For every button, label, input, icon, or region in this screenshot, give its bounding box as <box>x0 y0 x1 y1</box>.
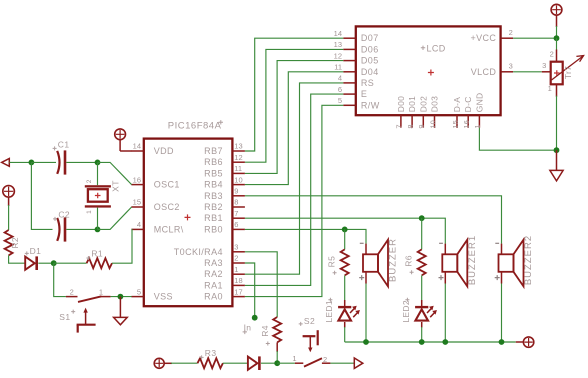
wire D2 to node C <box>261 362 277 364</box>
svg-text:11: 11 <box>234 164 242 173</box>
U1 origin cross <box>185 214 191 220</box>
svg-text:RB5: RB5 <box>204 168 223 178</box>
junction C2/XT node <box>95 227 101 233</box>
svg-text:16: 16 <box>133 175 141 184</box>
wire node B to R1 <box>54 262 87 264</box>
svg-text:D06: D06 <box>361 44 379 54</box>
svg-text:T0CKI/RA4: T0CKI/RA4 <box>174 247 223 257</box>
LCD pin 15 D-A stub <box>456 115 458 128</box>
XT origin cross <box>95 193 101 199</box>
svg-text:3: 3 <box>542 61 546 70</box>
LED2 label <box>405 298 409 302</box>
svg-text:S1: S1 <box>59 312 70 322</box>
svg-text:VSS: VSS <box>154 292 173 302</box>
svg-text:R6: R6 <box>404 255 414 266</box>
svg-text:13: 13 <box>234 142 242 151</box>
svg-text:RB1: RB1 <box>204 213 223 223</box>
svg-text:RA1: RA1 <box>204 280 223 290</box>
U1 pin 5 VSS stub <box>131 296 143 298</box>
svg-text:8: 8 <box>406 124 415 128</box>
svg-text:11: 11 <box>334 63 342 72</box>
svg-text:9: 9 <box>417 124 426 128</box>
wire arrow to node A <box>9 161 31 163</box>
svg-text:2: 2 <box>70 287 74 296</box>
svg-text:4: 4 <box>137 220 141 229</box>
svg-text:3: 3 <box>509 62 513 71</box>
U1 pin 2 RA3 stub <box>232 262 245 264</box>
U1 pin 8 RB2 stub <box>232 206 245 208</box>
resistor R4 <box>273 317 281 342</box>
U1 pin 11 RB5 stub <box>232 172 245 174</box>
node In end dot <box>252 315 258 321</box>
svg-text:BUZZER: BUZZER <box>388 238 399 282</box>
wire P5 down <box>556 15 558 27</box>
U1 pin 3 T0CKI/RA4 stub <box>232 251 245 253</box>
buzzer SP3 BUZZER2 <box>495 235 534 287</box>
switch S2 pin2 stub <box>322 362 331 364</box>
svg-text:RB4: RB4 <box>204 180 223 190</box>
svg-text:6: 6 <box>338 85 342 94</box>
wire node A to C1 <box>31 161 56 163</box>
output terminal arrow <box>354 358 363 368</box>
svg-text:RB6: RB6 <box>204 157 223 167</box>
wire LED2 to rail <box>421 322 423 328</box>
svg-text:MCLR\: MCLR\ <box>154 224 184 234</box>
svg-text:5: 5 <box>338 96 342 105</box>
svg-text:7: 7 <box>234 209 238 218</box>
svg-text:17: 17 <box>234 287 242 296</box>
U1 pin 18 RA1 stub <box>232 284 245 286</box>
diode D1 <box>25 256 38 270</box>
LCD pin 10 D03 stub <box>434 115 436 128</box>
svg-text:1: 1 <box>473 124 482 128</box>
wire S2 to arrow <box>330 362 354 364</box>
LCD value label <box>421 46 425 50</box>
wire RA4 to R4 <box>245 252 277 317</box>
U1 pin 12 RB6 stub <box>232 161 245 163</box>
trimmer Tr7 bottom stub <box>556 84 558 96</box>
svg-text:R3: R3 <box>205 348 217 358</box>
junction node A <box>29 160 35 166</box>
supply +V terminal P1 <box>115 129 126 140</box>
supply +V terminal P2 <box>3 186 15 198</box>
resistor R6 <box>418 249 426 275</box>
svg-text:9: 9 <box>234 187 238 196</box>
wire R5 to LED1 <box>344 275 346 300</box>
S2 actuator <box>303 330 318 352</box>
svg-text:D1: D1 <box>30 246 42 256</box>
wire RB6-D06 <box>245 49 343 162</box>
LED LED2 <box>415 306 437 321</box>
wire R6 to LED2 <box>421 275 423 300</box>
ground GND1 stub <box>119 297 121 318</box>
svg-text:1: 1 <box>99 287 103 296</box>
U1 pin 10 RB4 stub <box>232 184 245 186</box>
junction rail/BUZZER1 <box>442 339 448 345</box>
capacitor C1 <box>57 150 66 174</box>
wire RB7-D07 <box>245 38 343 151</box>
wire P3 to R3 <box>164 362 172 364</box>
wire R1 to MCLR <box>112 229 132 263</box>
U1 pin 15 OSC2 stub <box>131 206 143 208</box>
U1 pin 6 RB0 stub <box>232 228 245 230</box>
svg-text:GND: GND <box>474 93 484 113</box>
LCD pin 13 D06 stub <box>343 48 356 50</box>
wire BUZZER bottom <box>365 284 367 343</box>
svg-text:4: 4 <box>338 74 342 83</box>
wire node B down to S1 <box>54 263 66 296</box>
svg-text:16: 16 <box>462 120 471 128</box>
svg-text:Tr7: Tr7 <box>563 66 573 79</box>
svg-text:2: 2 <box>509 28 513 37</box>
svg-text:D00: D00 <box>396 96 406 113</box>
LCD origin cross <box>428 70 434 76</box>
wire P2 to R2 <box>8 197 10 206</box>
switch S1 pin2 stub <box>66 296 78 298</box>
wire to OSC1 diagonal <box>98 162 132 184</box>
diode D2 <box>248 356 261 370</box>
microcontroller U1 PIC16F84A box <box>144 139 233 307</box>
svg-text:3: 3 <box>234 243 238 252</box>
svg-text:E: E <box>361 89 367 99</box>
wire D1 to node B <box>38 262 53 264</box>
LCD pin 3 VLCD stub <box>501 71 513 73</box>
wire E-RA1 <box>245 94 343 285</box>
wire BUZZER1 bottom <box>444 284 446 343</box>
svg-text:15: 15 <box>451 120 460 128</box>
junction node C <box>274 360 280 366</box>
svg-text:2: 2 <box>550 50 554 59</box>
svg-text:RA3: RA3 <box>204 258 223 268</box>
wire R3 to D2 <box>223 362 248 364</box>
LCD pin 9 D02 stub <box>422 115 424 128</box>
svg-text:6: 6 <box>234 220 238 229</box>
svg-text:1: 1 <box>86 210 93 214</box>
LED1 label <box>328 298 332 302</box>
svg-text:R2: R2 <box>10 237 20 248</box>
wire XT bottom <box>97 208 99 230</box>
svg-text:RS: RS <box>361 78 374 88</box>
C1 label <box>53 146 57 150</box>
svg-text:BUZZER1: BUZZER1 <box>467 235 478 285</box>
trimmer Tr7 top stub <box>556 50 558 62</box>
S1 label <box>71 310 75 314</box>
wire RB1 to BUZZER1 <box>245 218 445 243</box>
svg-text:D03: D03 <box>430 96 440 113</box>
LCD pin 8 D01 stub <box>411 115 413 128</box>
supply +VCC terminal P5 <box>551 4 562 15</box>
wire R/W-RA0 <box>245 105 343 296</box>
svg-text:D04: D04 <box>361 67 379 77</box>
switch S2 lever <box>304 358 322 366</box>
LCD module box <box>356 26 501 115</box>
wire RA3 to In stub <box>245 263 255 318</box>
svg-text:RA0: RA0 <box>204 292 223 302</box>
svg-text:1: 1 <box>548 84 552 93</box>
junction rail/LED2 <box>419 339 425 345</box>
wire R6 from RB1 node <box>421 218 423 249</box>
C2 label <box>53 217 57 221</box>
switch S2 pin1 stub <box>295 362 303 364</box>
svg-text:C2: C2 <box>58 209 70 219</box>
svg-text:12: 12 <box>334 51 342 60</box>
svg-text:D02: D02 <box>418 96 428 113</box>
U1 pin 13 RB7 stub <box>232 150 245 152</box>
junction +VCC node <box>554 35 560 41</box>
svg-text:D05: D05 <box>361 56 379 66</box>
wire LCD +VCC to rail <box>513 37 556 39</box>
wire P1 to VDD pin <box>119 140 121 151</box>
junction gnd node <box>554 147 560 153</box>
svg-text:PIC16F84A: PIC16F84A <box>168 121 222 132</box>
svg-text:15: 15 <box>133 198 141 207</box>
svg-text:RB3: RB3 <box>204 191 223 201</box>
wire RB0 node to R5 <box>344 229 346 249</box>
svg-text:12: 12 <box>234 153 242 162</box>
resistor R1 <box>87 258 112 268</box>
supply +V terminal P4 <box>523 337 533 347</box>
ground GND2 <box>550 170 563 181</box>
LCD pin 12 D05 stub <box>343 60 356 62</box>
svg-text:LED1: LED1 <box>324 300 334 322</box>
svg-text:LED2: LED2 <box>401 300 411 322</box>
ground GND1 <box>114 317 128 324</box>
junction VSS node <box>118 294 124 300</box>
svg-text:18: 18 <box>234 276 242 285</box>
svg-text:RB7: RB7 <box>204 146 223 156</box>
R1 label <box>86 256 90 260</box>
wire R2 to D1 <box>9 255 25 263</box>
junction C1/XT node <box>95 160 101 166</box>
LED LED1 <box>338 306 360 321</box>
svg-text:10: 10 <box>428 120 437 128</box>
svg-text:8: 8 <box>234 198 238 207</box>
svg-text:BUZZER2: BUZZER2 <box>523 235 534 285</box>
S2 label <box>299 322 303 326</box>
svg-text:2: 2 <box>86 179 93 183</box>
junction rail/BUZZER <box>363 339 369 345</box>
wire C2 to crystal node <box>66 228 97 230</box>
input terminal arrow <box>2 159 10 167</box>
LCD pin 16 D-C stub <box>467 115 469 128</box>
LCD pin 11 D04 stub <box>343 71 356 73</box>
U1 pin 4 MCLR\ stub <box>131 228 143 230</box>
svg-text:RB2: RB2 <box>204 202 223 212</box>
rail terminal stub <box>516 341 524 343</box>
junction RB0/R5 <box>342 227 348 233</box>
svg-text:S2: S2 <box>304 316 315 326</box>
wire LCD VLCD to wiper <box>513 71 542 73</box>
buzzer SP1 BUZZER <box>359 238 398 286</box>
wire bottom rail <box>345 341 516 343</box>
bottom +V terminal P3 <box>154 358 164 368</box>
svg-text:1: 1 <box>292 354 296 363</box>
LCD pin 14 D07 stub <box>343 37 356 39</box>
wire rail to Tr7 <box>556 38 558 50</box>
svg-text:7: 7 <box>395 124 404 128</box>
svg-text:14: 14 <box>133 142 141 151</box>
wire XT top <box>97 162 99 185</box>
U1 pin 1 RA2 stub <box>232 273 245 275</box>
wire LED1 to rail <box>344 322 346 328</box>
wire S1 to VSS <box>111 296 132 298</box>
resistor R2 <box>5 230 13 255</box>
wire RB5-D05 <box>245 61 343 174</box>
wire RB3 to BUZZER2 <box>245 196 502 244</box>
LCD pin 1 GND stub <box>478 115 480 128</box>
svg-text:10: 10 <box>234 175 242 184</box>
svg-text:OSC1: OSC1 <box>154 180 180 190</box>
svg-text:14: 14 <box>334 29 342 38</box>
LCD pin 5 R/W stub <box>343 104 356 106</box>
S1 actuator <box>77 308 96 333</box>
svg-text:13: 13 <box>334 40 342 49</box>
svg-text:D01: D01 <box>407 96 417 113</box>
svg-text:R/W: R/W <box>361 100 380 110</box>
LCD pin 6 E stub <box>343 93 356 95</box>
buzzer SP2 BUZZER1 <box>439 235 478 287</box>
wire BUZZER2 bottom <box>501 284 503 343</box>
resistor R5 <box>341 249 349 275</box>
U1 pin 14 VDD stub <box>131 150 143 152</box>
svg-text:OSC2: OSC2 <box>154 202 180 212</box>
wire RS-RA2 <box>245 83 343 274</box>
wire R4 to bottom row <box>276 342 278 352</box>
svg-text:LCD: LCD <box>427 44 446 54</box>
svg-text:2: 2 <box>234 254 238 263</box>
svg-text:VLCD: VLCD <box>471 67 497 77</box>
svg-text:D07: D07 <box>361 33 379 43</box>
svg-text:5: 5 <box>137 287 141 296</box>
R3 label <box>200 355 204 359</box>
Tr7 origin cross <box>554 70 560 76</box>
wire RB4-D04 <box>245 72 343 185</box>
svg-text:D-C: D-C <box>463 96 473 112</box>
junction rail/BUZZER2 <box>499 339 505 345</box>
D1 label <box>25 251 29 255</box>
U1 pin 7 RB1 stub <box>232 217 245 219</box>
svg-text:C1: C1 <box>58 140 70 150</box>
Tr7 pin 3 stub <box>542 71 551 73</box>
junction node B <box>51 260 57 266</box>
junction RB1/R6 <box>419 215 425 221</box>
LCD pin 4 RS stub <box>343 82 356 84</box>
wire LCD GND down <box>479 128 556 151</box>
switch S1 pin1 stub <box>102 296 111 298</box>
svg-text:RA2: RA2 <box>204 269 223 279</box>
LCD pin 7 D00 stub <box>400 115 402 128</box>
svg-text:R5: R5 <box>327 256 337 267</box>
svg-text:+VCC: +VCC <box>470 33 496 43</box>
svg-text:XT: XT <box>111 180 121 192</box>
wire RB0 to BUZZER <box>245 229 366 243</box>
svg-text:RB0: RB0 <box>204 224 223 234</box>
ground GND2 stub <box>556 150 558 170</box>
Tr7 wiper arrow <box>552 56 584 80</box>
LCD pin 2 +VCC stub <box>501 37 513 39</box>
wire node C to S2 <box>277 362 295 364</box>
wire to OSC2 diagonal <box>98 207 132 229</box>
capacitor C2 <box>57 217 66 241</box>
switch S1 lever <box>78 296 102 302</box>
wire node A down to C2 row <box>31 162 52 229</box>
U1 pin 9 RB3 stub <box>232 195 245 197</box>
resistor R3 <box>198 358 223 368</box>
svg-text:R1: R1 <box>91 248 103 258</box>
svg-text:VDD: VDD <box>154 146 174 156</box>
svg-text:R4: R4 <box>260 325 270 336</box>
svg-text:D-A: D-A <box>452 97 462 113</box>
wire Tr7 to gnd node <box>556 96 558 151</box>
crystal XT <box>85 185 111 207</box>
svg-text:1: 1 <box>234 265 238 274</box>
U1 pin 16 OSC1 stub <box>131 184 143 186</box>
trimmer Tr7 body <box>551 62 563 85</box>
U1 pin 17 RA0 stub <box>232 296 245 298</box>
wire C1 to crystal node <box>66 161 97 163</box>
